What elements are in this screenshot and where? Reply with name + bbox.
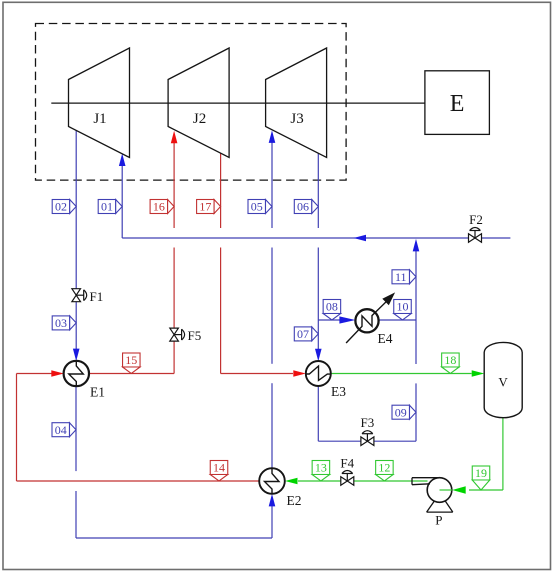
svg-text:J2: J2 [193, 111, 206, 127]
svg-text:P: P [435, 513, 442, 528]
svg-text:08: 08 [326, 300, 338, 314]
svg-text:15: 15 [125, 353, 137, 367]
svg-text:18: 18 [444, 353, 456, 367]
svg-text:05: 05 [251, 200, 263, 214]
svg-text:16: 16 [153, 200, 165, 214]
svg-text:04: 04 [55, 423, 67, 437]
svg-text:E4: E4 [378, 331, 393, 346]
svg-text:E: E [450, 91, 465, 117]
svg-text:17: 17 [199, 200, 211, 214]
svg-text:F1: F1 [90, 289, 104, 304]
svg-text:09: 09 [395, 405, 407, 419]
svg-text:J3: J3 [290, 111, 303, 127]
svg-text:02: 02 [55, 200, 67, 214]
svg-text:J1: J1 [93, 111, 106, 127]
svg-text:F2: F2 [469, 212, 483, 227]
svg-text:F5: F5 [188, 328, 202, 343]
svg-text:F3: F3 [361, 415, 375, 430]
svg-text:07: 07 [297, 327, 309, 341]
svg-text:E1: E1 [90, 385, 105, 400]
svg-text:11: 11 [395, 270, 407, 284]
svg-text:F4: F4 [340, 456, 354, 471]
svg-text:V: V [498, 375, 508, 390]
svg-text:19: 19 [475, 466, 487, 480]
svg-text:03: 03 [55, 316, 67, 330]
svg-text:12: 12 [378, 461, 390, 475]
svg-text:13: 13 [315, 461, 327, 475]
svg-text:E2: E2 [287, 493, 302, 508]
svg-text:01: 01 [101, 200, 113, 214]
svg-text:06: 06 [297, 200, 309, 214]
svg-text:E3: E3 [331, 384, 346, 399]
svg-text:14: 14 [213, 461, 225, 475]
svg-text:10: 10 [397, 300, 409, 314]
